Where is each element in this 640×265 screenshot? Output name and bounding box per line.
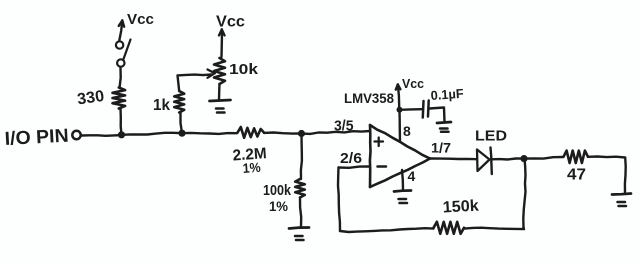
- svg-text:8: 8: [403, 123, 411, 139]
- pin 8 wire: [398, 110, 401, 141]
- svg-text:LMV358: LMV358: [344, 90, 394, 106]
- svg-text:0.1µF: 0.1µF: [430, 86, 464, 103]
- Vcc arrow (op-amp): [396, 85, 401, 108]
- svg-text:1%: 1%: [269, 199, 288, 214]
- svg-text:47: 47: [567, 167, 586, 184]
- wire: feedback bottom right segment: [464, 228, 524, 230]
- I/O pin label: [4, 126, 69, 150]
- op-amp U1 body: [370, 125, 430, 187]
- value label 100k: [263, 182, 292, 199]
- svg-text:LED: LED: [475, 129, 507, 145]
- ground (capacitor): [437, 122, 451, 132]
- wire: 100k to ground: [300, 198, 301, 228]
- Vcc label (switch): [127, 11, 154, 28]
- wire: feedback bottom left segment: [340, 228, 434, 232]
- switch SW1 lower contact: [117, 59, 124, 66]
- switch SW1 blade: [124, 40, 131, 60]
- svg-text:I/O PIN: I/O PIN: [4, 126, 69, 150]
- pin 4 wire: [402, 170, 403, 190]
- value label 47: [567, 167, 586, 184]
- pin label 3/5: [334, 119, 354, 135]
- wire: node C to resistor 100k: [301, 134, 302, 180]
- ground (pin 4): [394, 191, 411, 204]
- resistor R1 2.2M: [238, 127, 265, 138]
- svg-text:150k: 150k: [442, 198, 479, 217]
- svg-text:4: 4: [408, 168, 416, 184]
- pin label 2/6: [340, 151, 362, 167]
- pin label 8: [403, 123, 411, 139]
- svg-text:1%: 1%: [242, 160, 261, 176]
- Vcc label (op-amp): [402, 76, 424, 91]
- junction: node A: [118, 131, 125, 138]
- I/O pin terminal: [72, 131, 80, 139]
- wire: node C to op-amp + input: [302, 131, 371, 134]
- tolerance label 1% (2.2M): [242, 160, 261, 176]
- wire: node D to resistor 47: [524, 157, 563, 159]
- wire: pot to ground: [218, 84, 221, 100]
- wire: Vcc node to capacitor: [400, 108, 423, 111]
- ground (100k): [289, 228, 309, 241]
- pin label 4: [408, 168, 416, 184]
- op-amp - input symbol: [378, 165, 387, 168]
- Vcc arrow (pot): [219, 30, 225, 58]
- junction: node C: [298, 130, 305, 137]
- value label 10k: [229, 61, 259, 78]
- resistor R2 330: [113, 88, 126, 109]
- potentiometer RV1 10k element: [214, 58, 225, 84]
- pin label 1/7: [431, 140, 451, 156]
- wire: LED to node D: [492, 159, 525, 160]
- label LED: [475, 129, 507, 145]
- value label 330: [76, 88, 105, 109]
- svg-text:330: 330: [76, 88, 105, 109]
- wire: op-amp - input stub: [339, 167, 371, 168]
- wire: feedback up to - input: [338, 168, 340, 232]
- svg-text:100k: 100k: [263, 182, 292, 199]
- wire: 1k to pot wiper: [178, 75, 212, 92]
- part label LMV358: [344, 90, 394, 106]
- wire: node B to resistor 2.2M: [182, 133, 237, 134]
- ground (47): [612, 194, 631, 207]
- svg-text:1/7: 1/7: [431, 140, 451, 156]
- resistor R3 1k: [174, 91, 184, 113]
- capacitor C1 plates: [423, 101, 429, 118]
- diode LED anode: [477, 150, 490, 172]
- value label 2.2M: [232, 145, 267, 164]
- Vcc arrow (switch): [119, 21, 124, 42]
- svg-text:Vcc: Vcc: [127, 11, 154, 28]
- ground (pot): [210, 100, 231, 113]
- wire: node B to resistor 1k: [181, 113, 183, 134]
- switch SW1 upper contact: [116, 41, 123, 48]
- junction: node D: [520, 155, 527, 162]
- junction: node B: [178, 130, 185, 137]
- wire: op-amp output to LED: [430, 157, 477, 160]
- svg-text:3/5: 3/5: [334, 119, 354, 135]
- wire: 330 to switch: [120, 68, 121, 89]
- svg-text:Vcc: Vcc: [402, 76, 424, 91]
- value label 1k: [153, 97, 170, 114]
- op-amp + input symbol: [375, 138, 384, 147]
- wire: node A to resistor 330: [121, 109, 122, 135]
- diode LED cathode bar: [491, 148, 492, 175]
- value label 150k: [442, 198, 479, 217]
- wire: 47 to ground: [588, 157, 626, 193]
- potentiometer wiper arrow: [208, 70, 215, 78]
- resistor R4 100k: [295, 179, 305, 198]
- tolerance label 1% (100k): [269, 199, 288, 214]
- resistor R5 47: [564, 151, 589, 163]
- resistor R6 150k: [434, 222, 465, 234]
- wire: node D down (feedback): [523, 159, 525, 228]
- Vcc label (pot): [216, 14, 245, 31]
- svg-text:2/6: 2/6: [340, 151, 362, 167]
- wire: capacitor to ground: [430, 108, 445, 122]
- wire: 2.2M to node C: [264, 133, 302, 134]
- svg-text:1k: 1k: [153, 97, 170, 114]
- wire: I/O pin to node A: [82, 134, 123, 137]
- svg-text:Vcc: Vcc: [216, 14, 245, 31]
- junction: Vcc node: [397, 107, 403, 113]
- svg-text:10k: 10k: [229, 61, 259, 78]
- wire: node A to node B: [122, 133, 183, 135]
- value label 0.1µF: [430, 86, 464, 103]
